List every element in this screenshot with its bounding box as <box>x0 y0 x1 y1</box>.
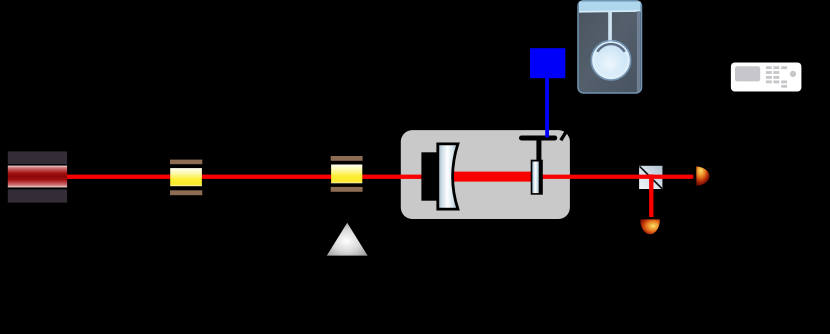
photodetector PD1 (flat edge left) <box>696 166 709 186</box>
pressure gauge icon <box>578 1 642 93</box>
photodetector PD2 (flat edge top) <box>640 219 660 234</box>
cavity spacer (gray rounded box) <box>401 130 570 219</box>
wire: laser beam from laser to cavity mirror <box>67 175 429 179</box>
tick mark at cavity corner <box>561 131 567 140</box>
piezo actuator T-bar on mirror M2 <box>522 138 555 161</box>
beamsplitter BS cube <box>639 166 662 189</box>
wire: intracavity thick beam <box>454 172 533 182</box>
flat output mirror M2 with black backing <box>531 160 543 195</box>
laser <box>8 151 67 202</box>
EOM2 (phase modulator, yellow with brown electrodes) <box>331 156 363 192</box>
curved input mirror M1 <box>438 144 458 209</box>
input mirror mount (black block) <box>421 152 439 200</box>
wire: reflected beam from beamsplitter down to photodetector PD2 <box>649 174 653 217</box>
HV amplifier (blue box) <box>530 48 565 78</box>
EOM1 (phase modulator, yellow with brown electrodes) <box>170 160 202 196</box>
triangle reference marker <box>327 223 368 256</box>
wire: laser beam from cavity output mirror to photodetector PD1 <box>541 175 694 179</box>
function generator instrument <box>731 63 802 92</box>
wire: blue signal line from HV amplifier to piezo <box>545 78 549 138</box>
